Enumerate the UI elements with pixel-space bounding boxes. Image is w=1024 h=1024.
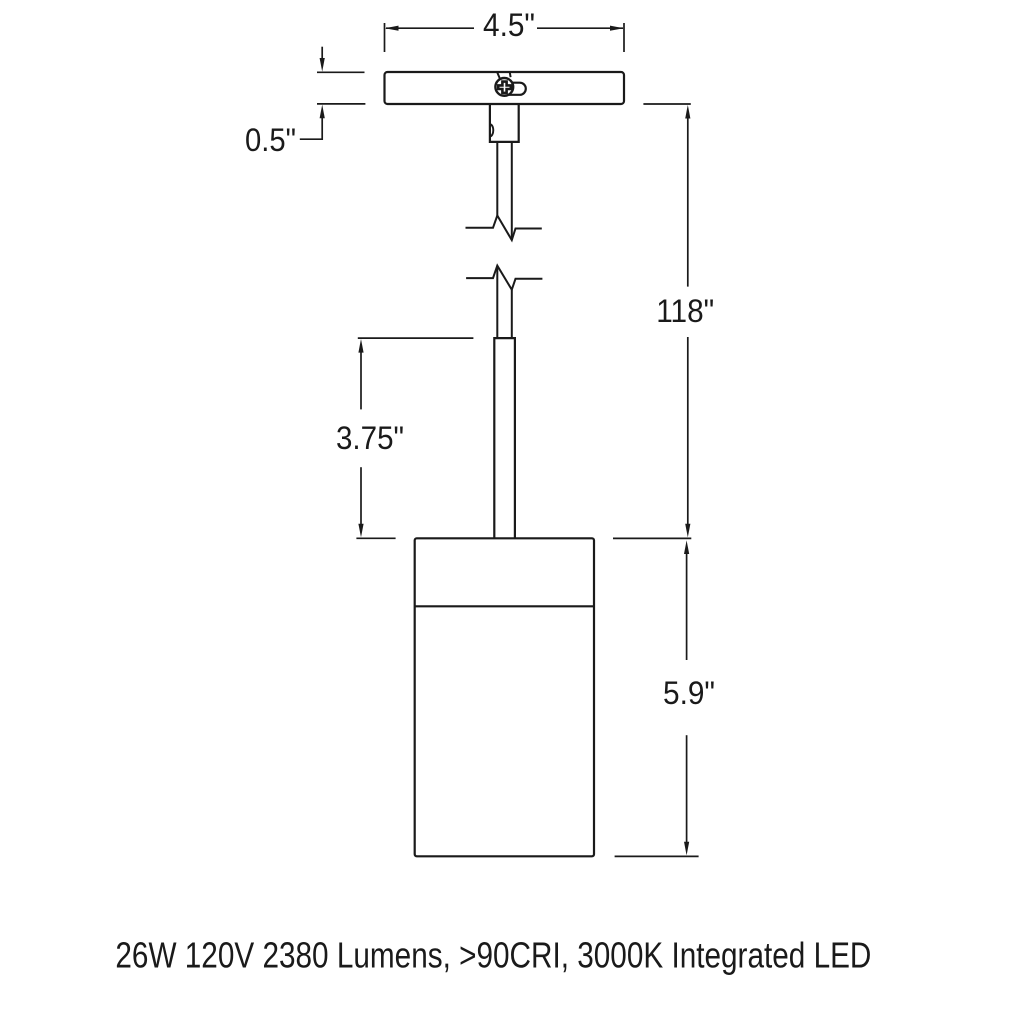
- dimension 5.9" line upper segment: [686, 553, 688, 661]
- dimension 3.75" line lower segment: [360, 467, 362, 525]
- socket block set-screw arc: [490, 124, 493, 136]
- svg-text:0.5": 0.5": [245, 122, 296, 158]
- break symbol upper: [466, 216, 542, 241]
- stem lower rod right line: [511, 290, 513, 338]
- dimension 5.9" line lower segment: [686, 735, 688, 843]
- dimension 118" lower arrow (down): [685, 524, 690, 538]
- dimension 3.75" upper arrow (up): [358, 339, 363, 353]
- dimension 4.5" extension line right: [623, 23, 625, 52]
- cylinder body: [415, 538, 594, 856]
- svg-text:118": 118": [656, 293, 714, 329]
- stem lower section: [494, 338, 515, 538]
- stem upper rod left line: [496, 142, 498, 216]
- dimension 4.5" arrow right: [610, 26, 624, 31]
- dimension 4.5" arrow left: [385, 26, 399, 31]
- svg-text:3.75": 3.75": [336, 420, 404, 456]
- dimension 5.9" lower arrow (down): [684, 842, 689, 856]
- svg-text:26W 120V 2380 Lumens, >90CRI,: 26W 120V 2380 Lumens, >90CRI, 3000K Inte…: [115, 935, 871, 976]
- dimension 118" line upper segment: [687, 117, 689, 287]
- stem lower rod left line: [496, 266, 498, 339]
- hang-straight socket block: [490, 105, 519, 142]
- dimension 0.5" upper arrow line: [321, 47, 323, 60]
- dimension 0.5" upper arrow (down): [320, 58, 325, 72]
- dimension 4.5" extension line left: [384, 23, 386, 52]
- dimension 3.75" lower arrow (down): [358, 524, 363, 538]
- dimension 0.5" extension line bottom: [317, 103, 365, 105]
- dimension 3.75" line upper segment: [360, 351, 362, 409]
- cylinder cap seam line: [415, 605, 594, 607]
- canopy plate: [385, 72, 625, 104]
- dimension 5.9" extension line bottom: [615, 855, 699, 857]
- screw mounting tab: [497, 73, 510, 79]
- dimension 0.5" extension line top: [317, 71, 365, 73]
- dimension 3.75" extension line top: [358, 337, 474, 339]
- screw keyhole slot: [504, 83, 526, 95]
- stem upper rod right line: [511, 142, 513, 240]
- dimension 118" line lower segment: [687, 337, 689, 525]
- svg-text:5.9": 5.9": [663, 675, 715, 711]
- dimension 4.5" line left segment: [386, 27, 474, 29]
- screw phillips cross: [498, 82, 511, 93]
- dimension 4.5" line right segment: [537, 27, 623, 29]
- svg-text:4.5": 4.5": [483, 7, 535, 43]
- cylinder top extension line (shared 118"/5.9"): [613, 537, 691, 539]
- dimension 118" extension line top: [643, 103, 690, 105]
- dimension 0.5" lower arrow (up): [320, 105, 325, 119]
- dimension 3.75" extension line bottom: [356, 537, 395, 539]
- dimension 0.5" lower arrow line and leader elbow: [300, 116, 322, 139]
- break symbol lower: [466, 266, 542, 290]
- screw head: [495, 78, 513, 96]
- dimension 118" upper arrow (up): [685, 105, 690, 119]
- dimension 5.9" upper arrow (up): [684, 540, 689, 554]
